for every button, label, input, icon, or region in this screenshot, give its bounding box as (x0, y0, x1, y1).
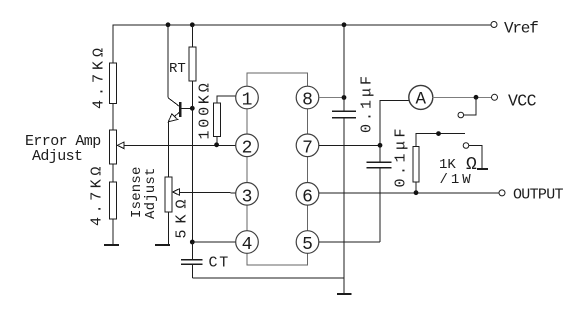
wire R1 to pot RP1 (112, 104, 114, 131)
wire pin7 to VCC node (319, 144, 380, 146)
node junction R4 top (436, 131, 441, 136)
ground bar pot column (155, 244, 170, 246)
pin 3 (236, 183, 259, 206)
wire bottom rail (192, 277, 344, 279)
capacitor C2 0.1uF (379, 145, 381, 162)
svg-text:5: 5 (302, 235, 313, 255)
svg-text:Adjust: Adjust (32, 148, 82, 165)
op-amp U1 IC body (247, 73, 308, 265)
node junction pin7/C2 (378, 143, 383, 148)
ground bar left column (104, 244, 119, 246)
wire pin4 (192, 241, 235, 243)
ammeter A (409, 85, 433, 109)
switch S2 load (463, 143, 469, 149)
wire pot RP2 bottom to end bar (167, 212, 169, 245)
svg-text:4: 4 (242, 235, 253, 255)
terminal VCC (492, 94, 498, 100)
terminal OUTPUT (499, 190, 505, 196)
node junction pin8/C1 (342, 95, 347, 100)
wire R2 to end bar (112, 219, 114, 245)
node junction pin4/CT (190, 240, 195, 245)
pin 1 (236, 86, 259, 109)
node junction 1K bottom (414, 190, 419, 195)
node junction R3/pin2 (214, 142, 219, 147)
resistor R4 1K/1W (415, 182, 417, 193)
wire collector drop (167, 25, 169, 98)
resistor R2 4.7K bottom (110, 182, 117, 219)
svg-text:100KΩ: 100KΩ (197, 80, 214, 139)
pin 6 (296, 183, 319, 206)
node junction on rail at RT (190, 22, 195, 27)
resistor R3 100K (217, 96, 236, 103)
wire wiper RP1 to pin2 (124, 144, 236, 146)
svg-text:6: 6 (302, 187, 313, 207)
svg-text:RT: RT (169, 61, 186, 77)
pin 4 (236, 231, 259, 254)
wire pin8 to C1 (319, 97, 344, 99)
potentiometer RP2 Isense Adjust 5K (165, 177, 172, 212)
wire A to VCC terminal (433, 96, 492, 98)
pin 8 (296, 86, 319, 109)
svg-text:0.1μF: 0.1μF (393, 125, 410, 188)
terminal Vref (491, 22, 497, 28)
svg-text:Adjust: Adjust (143, 167, 159, 219)
pin 5 (296, 231, 319, 254)
wire pin5 (319, 241, 380, 243)
potentiometer RP1 Error Amp Adjust (110, 130, 117, 164)
resistor RT (191, 25, 193, 47)
svg-text:0.1μF: 0.1μF (359, 73, 376, 133)
wire emitter to pot RP2 (167, 121, 169, 177)
svg-text:7: 7 (302, 138, 313, 158)
pin 2 (236, 134, 259, 157)
svg-text:/1W: /1W (440, 172, 474, 188)
svg-text:1K: 1K (439, 157, 456, 173)
wire pot RP1 to R2 (112, 164, 114, 182)
svg-text:OUTPUT: OUTPUT (513, 187, 564, 204)
svg-text:8: 8 (302, 91, 313, 111)
svg-text:4.7KΩ: 4.7KΩ (91, 44, 108, 109)
svg-text:3: 3 (242, 187, 253, 207)
capacitor CT (191, 242, 193, 259)
capacitor C1 0.1uF (343, 25, 345, 111)
resistor R1 4.7K top (110, 63, 117, 104)
svg-text:Vref: Vref (504, 20, 538, 38)
wire top rail Vref (113, 25, 491, 63)
pin 7 (296, 134, 319, 157)
svg-text:CT: CT (209, 255, 231, 272)
wire wiper RP2 to pin3 (180, 191, 236, 194)
node junction on rail at C1 (342, 22, 347, 27)
wire VCC branch up (380, 100, 409, 145)
ground (337, 293, 352, 295)
node junction on rail at transistor collector (166, 22, 171, 27)
svg-text:4.7KΩ: 4.7KΩ (89, 163, 106, 226)
transistor Q1 (168, 98, 179, 107)
svg-text:2: 2 (242, 138, 253, 158)
svg-text:5KΩ: 5KΩ (174, 193, 191, 238)
node junction base/RT-CT (190, 106, 195, 111)
wire RT bottom to pin4 node (191, 81, 193, 242)
svg-text:1: 1 (242, 91, 253, 111)
switch S1 VCC (464, 97, 476, 115)
svg-text:A: A (416, 90, 427, 110)
svg-text:VCC: VCC (508, 92, 537, 111)
wire pin6 to OUTPUT (319, 192, 499, 194)
node junction VCC/S1 (474, 95, 479, 100)
